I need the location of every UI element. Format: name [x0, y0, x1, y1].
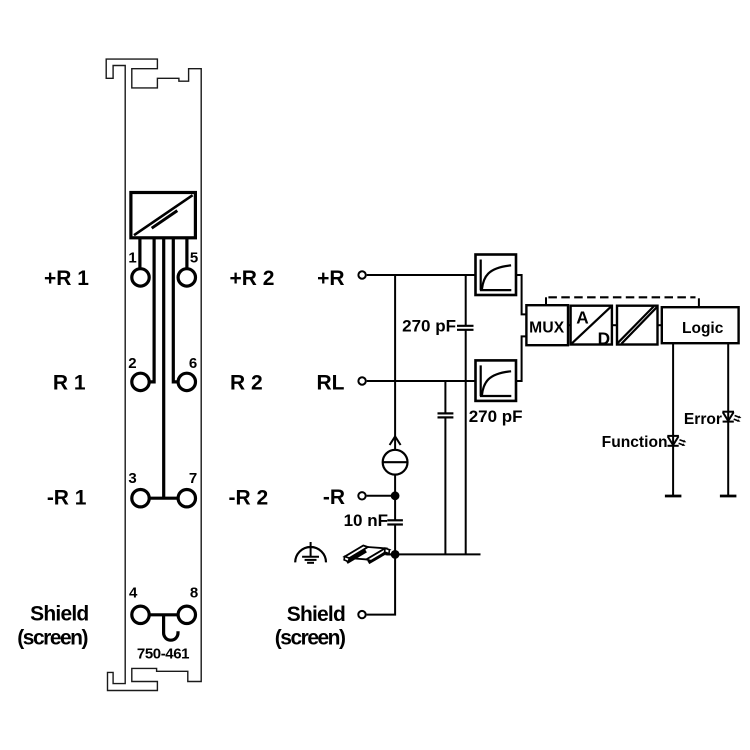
wire +R branch down [394, 275, 396, 450]
left flange shadow [347, 551, 366, 562]
right flange top [367, 548, 390, 561]
wire 270pF branch from RL [444, 381, 446, 413]
wire pin5 [185, 238, 188, 269]
svg-text:4: 4 [129, 585, 138, 602]
shield hook [164, 615, 178, 640]
svg-text:+R 2: +R 2 [230, 267, 275, 290]
current source arrow [390, 436, 401, 445]
svg-text:270 pF: 270 pF [469, 407, 523, 426]
wire center to pins 3-7 [162, 238, 165, 498]
wire -R to junction [367, 495, 396, 497]
svg-text:-R 2: -R 2 [229, 487, 269, 510]
wire F1 out to MUX [516, 275, 526, 314]
wire RL to filter [367, 380, 476, 382]
transducer U1 box [131, 193, 196, 238]
svg-text:2: 2 [128, 355, 136, 372]
wire MUX to AD [568, 324, 571, 326]
wire rail to junction [387, 553, 395, 555]
junction dot shield [391, 550, 400, 559]
wire source to -R junction [394, 475, 396, 521]
wire 270pF branch from +R [465, 275, 467, 326]
svg-text:Error: Error [684, 411, 722, 428]
wire isolator to Logic [658, 324, 662, 326]
svg-text:R 1: R 1 [53, 372, 86, 395]
right flange shadow [368, 551, 387, 562]
terminal 5 [178, 269, 195, 286]
terminal circle RL [358, 377, 365, 384]
svg-text:Logic: Logic [682, 320, 724, 337]
svg-text:5: 5 [190, 250, 198, 267]
svg-text:(screen): (screen) [275, 627, 345, 650]
wire pin1 [138, 238, 141, 269]
wire C1 to shield bus [465, 330, 467, 555]
capacitor C2 270 pF [438, 413, 454, 417]
svg-text:Shield: Shield [30, 603, 88, 626]
A/D converter box [571, 306, 612, 349]
earth ground symbol [295, 542, 326, 563]
svg-text:RL: RL [317, 372, 345, 395]
wire pin6 [173, 238, 178, 382]
junction dot -R [391, 491, 400, 500]
ground bar Function [665, 495, 682, 498]
svg-text:D: D [598, 329, 610, 349]
filter box F1 [476, 255, 517, 296]
module 750-461 housing outline [106, 59, 201, 690]
wire cap to shield junction [394, 525, 396, 555]
terminal 7 [178, 490, 195, 507]
svg-text:1: 1 [128, 250, 136, 267]
terminal circle -R [358, 492, 365, 499]
svg-text:Shield: Shield [287, 603, 345, 626]
terminal 1 [132, 269, 149, 286]
terminal 3 [132, 490, 149, 507]
svg-text:+R: +R [317, 267, 344, 290]
terminal 2 [132, 373, 149, 390]
svg-text:6: 6 [189, 355, 197, 372]
dashed line stub right [698, 298, 700, 307]
svg-text:270 pF: 270 pF [402, 317, 456, 336]
wire shield elbow [367, 554, 396, 614]
svg-text:-R: -R [323, 486, 345, 509]
terminal circle +R [358, 271, 365, 278]
right end cap [385, 548, 390, 553]
wire shield bus horizontal [386, 553, 481, 555]
wire AD to isolator [612, 324, 617, 326]
svg-text:-R 1: -R 1 [47, 487, 87, 510]
wire F2 out to MUX [516, 336, 526, 381]
wire pin2 [149, 238, 154, 382]
svg-text:3: 3 [128, 470, 136, 487]
LED Error [722, 412, 741, 422]
svg-text:Function: Function [602, 434, 668, 451]
wire pins 4-8 connector [149, 613, 178, 616]
ground bar Error [720, 495, 737, 498]
wire C2 to shield bus [444, 417, 446, 554]
left end cap [344, 557, 349, 562]
svg-text:MUX: MUX [529, 320, 565, 337]
svg-text:750-461: 750-461 [137, 646, 189, 663]
dashed supervision line [548, 296, 695, 298]
terminal circle Shield [358, 611, 365, 618]
capacitor C1 270 pF [457, 326, 474, 330]
terminal 4 [132, 606, 149, 623]
svg-text:10 nF: 10 nF [344, 511, 388, 530]
left flange top [345, 546, 368, 559]
MUX box [526, 305, 568, 345]
channel floor [349, 547, 385, 559]
terminal 6 [178, 373, 195, 390]
svg-text:A: A [576, 308, 589, 328]
capacitor 10 nF [387, 520, 403, 524]
current source I1 [383, 450, 408, 475]
wire +R to filter [367, 274, 476, 276]
wire Logic to Error LED [727, 343, 729, 496]
svg-text:7: 7 [189, 470, 197, 487]
Logic box [662, 307, 739, 343]
wire pins 3-7 connector [149, 497, 178, 500]
wire Logic to Function LED [672, 343, 674, 496]
svg-text:+R 1: +R 1 [44, 267, 89, 290]
svg-text:R 2: R 2 [230, 372, 263, 395]
filter box F2 [476, 360, 517, 401]
svg-text:8: 8 [190, 585, 198, 602]
dashed line stub left [545, 297, 547, 305]
LED Function [667, 436, 686, 446]
svg-text:(screen): (screen) [17, 627, 87, 650]
terminal 8 [178, 606, 195, 623]
isolator box [617, 306, 658, 345]
DIN rail symbol [344, 546, 389, 563]
